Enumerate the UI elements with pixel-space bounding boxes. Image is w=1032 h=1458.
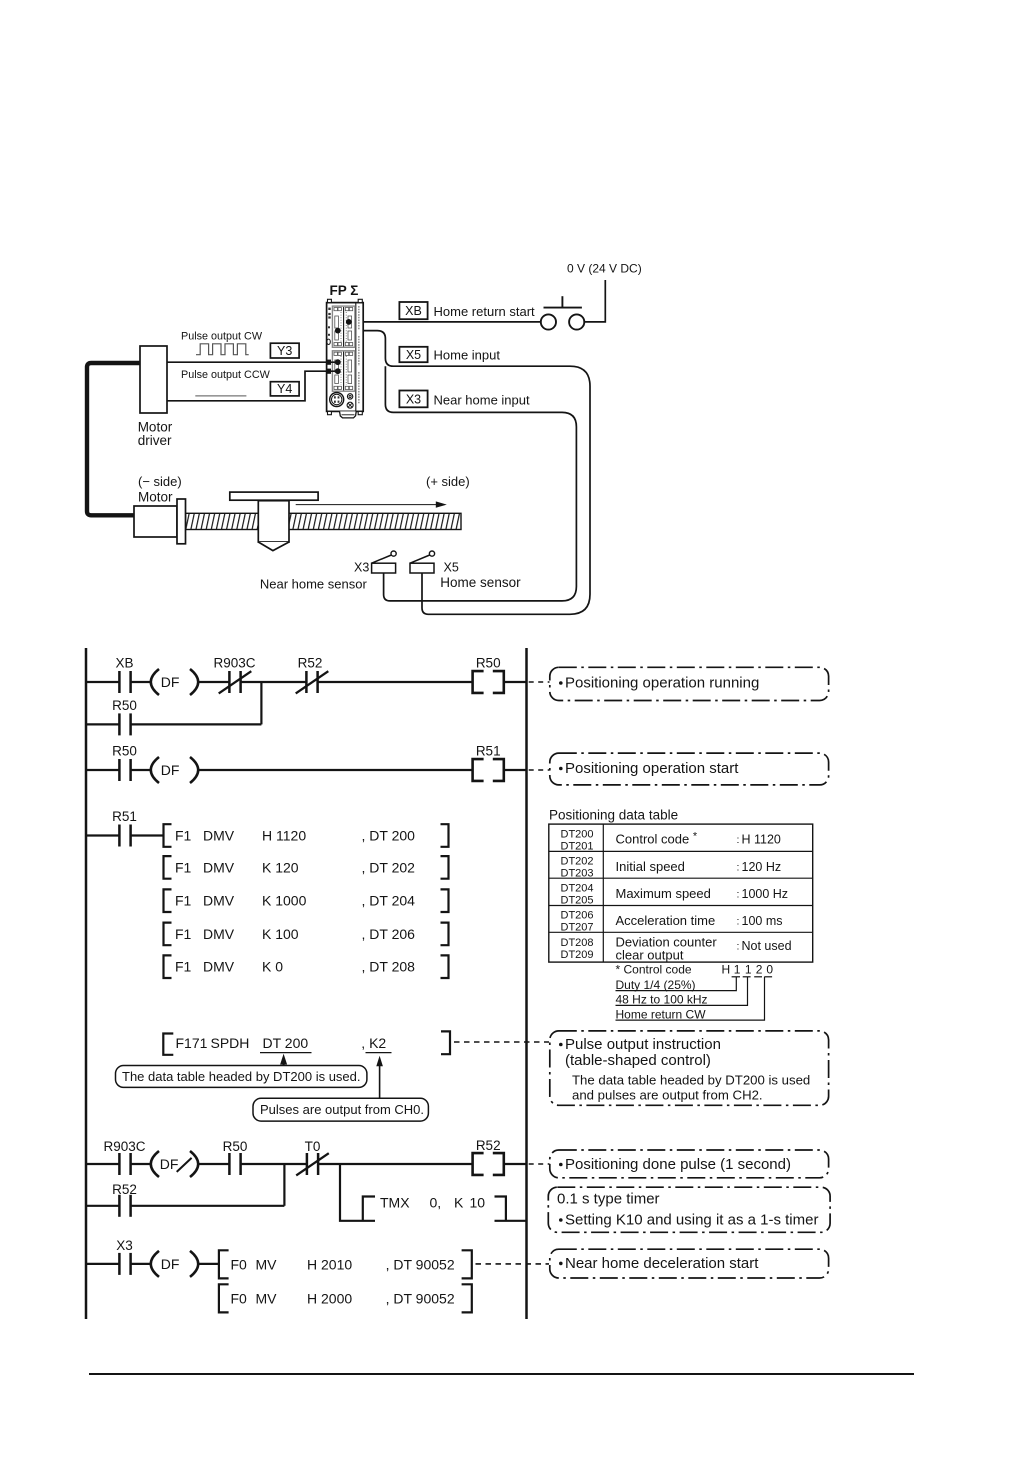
svg-text:X5: X5 xyxy=(444,561,459,575)
svg-text:R903C: R903C xyxy=(103,1139,145,1154)
wire Y4 CCW xyxy=(167,371,338,401)
svg-text:FP Σ: FP Σ xyxy=(330,283,359,298)
contact XB xyxy=(119,671,130,693)
contact R50 rung4 xyxy=(229,1153,240,1175)
comment box timer note xyxy=(548,1187,830,1232)
svg-text:XB: XB xyxy=(115,656,133,671)
rung 5 wires xyxy=(86,1263,219,1265)
thick wire driver to motor xyxy=(87,363,140,515)
connection dot Y4 xyxy=(335,368,341,374)
label Y3 box xyxy=(270,343,299,358)
svg-text:Pulses are output from CH0.: Pulses are output from CH0. xyxy=(260,1102,424,1117)
svg-text:T0: T0 xyxy=(305,1139,321,1154)
bottom rule xyxy=(89,1373,914,1375)
svg-text:Home sensor: Home sensor xyxy=(440,575,521,590)
svg-text:R52: R52 xyxy=(112,1182,137,1197)
data table xyxy=(549,824,813,962)
svg-text::: : xyxy=(737,916,740,928)
svg-text:, DT 204: , DT 204 xyxy=(362,893,416,909)
svg-text:and pulses are output from CH2: and pulses are output from CH2. xyxy=(572,1088,763,1103)
svg-text:clear output: clear output xyxy=(616,948,684,963)
DF falling pulse xyxy=(151,1151,198,1177)
svg-text:Home return CW: Home return CW xyxy=(616,1007,707,1021)
svg-text:R50: R50 xyxy=(112,744,137,759)
svg-text:DF: DF xyxy=(161,762,180,778)
svg-text:, DT 90052: , DT 90052 xyxy=(386,1257,455,1273)
svg-text:(− side): (− side) xyxy=(138,474,182,489)
connection dot XB xyxy=(346,319,352,325)
svg-text:The data table headed by DT200: The data table headed by DT200 is used xyxy=(572,1073,810,1088)
svg-text:H 1120: H 1120 xyxy=(262,828,306,844)
svg-text:F1: F1 xyxy=(175,893,192,909)
instruction F0 MV row2 xyxy=(219,1284,472,1312)
svg-text:DT203: DT203 xyxy=(561,867,594,879)
terminal mark Y3 xyxy=(327,360,331,365)
wire Y3 CW xyxy=(167,361,338,363)
instruction F1 DMV row1 xyxy=(164,824,449,847)
upper terminal block xyxy=(332,306,355,347)
wire 24V vertical xyxy=(585,280,606,322)
junction rung1 branch xyxy=(260,682,262,724)
svg-text::: : xyxy=(737,888,740,900)
branch R52 contact xyxy=(86,1205,284,1207)
svg-text::: : xyxy=(737,834,740,846)
svg-text:, DT 202: , DT 202 xyxy=(362,859,416,875)
svg-text:K 100: K 100 xyxy=(262,926,299,942)
comment box positioning operation start xyxy=(550,753,829,785)
svg-text:Not used: Not used xyxy=(742,939,792,953)
left rail xyxy=(85,648,88,1319)
dashed connector F171 xyxy=(454,1041,549,1043)
instruction F1 DMV row2 xyxy=(164,856,449,879)
terminal mark Y4 xyxy=(327,369,331,374)
arrow plus direction xyxy=(296,504,438,506)
motor flange xyxy=(177,499,186,544)
svg-text:DMV: DMV xyxy=(203,859,235,875)
junction R52 branch xyxy=(283,1164,285,1206)
svg-text:, K2: , K2 xyxy=(361,1035,386,1051)
svg-text:Initial speed: Initial speed xyxy=(616,859,685,874)
svg-text:K 120: K 120 xyxy=(262,859,299,875)
svg-text:Positioning data table: Positioning data table xyxy=(549,808,678,823)
svg-text:Pulse output CW: Pulse output CW xyxy=(181,331,263,343)
rung 3 contact R51 xyxy=(86,834,164,836)
svg-text:F1: F1 xyxy=(175,926,192,942)
svg-text:DMV: DMV xyxy=(203,959,235,975)
svg-text:DT 200: DT 200 xyxy=(263,1035,309,1051)
waveform CCW flat xyxy=(195,395,246,397)
comment box pulse output instruction xyxy=(550,1031,829,1105)
svg-text:, DT 208: , DT 208 xyxy=(362,959,416,975)
contact T0 NC xyxy=(307,1153,318,1175)
svg-text:X3: X3 xyxy=(116,1238,133,1253)
svg-text:Control code *: Control code * xyxy=(616,831,698,847)
svg-text:0: 0 xyxy=(766,963,773,977)
svg-text:Home return start: Home return start xyxy=(434,304,536,319)
callout data table DT200 xyxy=(116,1054,367,1088)
svg-text:DT208: DT208 xyxy=(561,937,594,949)
label box XB xyxy=(399,302,427,319)
svg-text:X3: X3 xyxy=(406,393,421,407)
svg-text:1: 1 xyxy=(734,963,741,977)
dashed connector rung4 xyxy=(529,1163,550,1165)
svg-text:10: 10 xyxy=(470,1195,486,1211)
svg-text:R51: R51 xyxy=(112,809,137,824)
contact R50 rung2 xyxy=(119,759,130,781)
svg-text:DT209: DT209 xyxy=(561,949,594,961)
svg-text:R52: R52 xyxy=(298,656,323,671)
dashed connector rung5 xyxy=(476,1263,550,1265)
svg-text:R50: R50 xyxy=(476,656,501,671)
svg-text:120 Hz: 120 Hz xyxy=(742,860,782,874)
dashed connector rung2 xyxy=(529,769,550,771)
svg-text:, DT 90052: , DT 90052 xyxy=(386,1291,455,1307)
instruction F1 DMV row5 xyxy=(164,955,449,978)
slider block xyxy=(258,501,289,542)
svg-text:F0: F0 xyxy=(231,1291,248,1307)
svg-text:R50: R50 xyxy=(112,698,137,713)
svg-text:0,: 0, xyxy=(430,1195,442,1211)
svg-text:1000 Hz: 1000 Hz xyxy=(742,887,789,901)
svg-text:K: K xyxy=(454,1195,464,1211)
svg-text:Positioning done pulse (1 seco: Positioning done pulse (1 second) xyxy=(565,1156,791,1173)
instruction F1 DMV row4 xyxy=(164,923,449,946)
lower terminal block xyxy=(332,351,355,391)
DF pulse rung2 xyxy=(151,757,198,783)
coil R50 xyxy=(473,671,504,693)
control code annotation xyxy=(616,963,774,1022)
svg-text:X3: X3 xyxy=(354,561,369,575)
svg-text:SPDH: SPDH xyxy=(211,1035,250,1051)
comment box near home deceleration xyxy=(550,1249,829,1278)
svg-text:Motor: Motor xyxy=(138,490,173,505)
DF pulse rung1 xyxy=(151,669,198,695)
svg-text:F1: F1 xyxy=(175,859,192,875)
svg-text:Near home input: Near home input xyxy=(434,393,530,408)
connection dot Y3 xyxy=(335,359,341,365)
svg-text:Y3: Y3 xyxy=(277,344,292,358)
svg-text:DMV: DMV xyxy=(203,828,235,844)
contact R903C NC xyxy=(229,671,240,693)
svg-text:(table-shaped control): (table-shaped control) xyxy=(565,1052,711,1069)
svg-text:48 Hz to 100 kHz: 48 Hz to 100 kHz xyxy=(616,993,708,1007)
svg-text:DT206: DT206 xyxy=(561,910,594,922)
svg-text:F171: F171 xyxy=(176,1035,208,1051)
svg-text:K 0: K 0 xyxy=(262,959,283,975)
instruction F1 DMV row3 xyxy=(164,889,449,912)
callout pulses CH0 xyxy=(253,1056,428,1121)
svg-text:R50: R50 xyxy=(223,1139,248,1154)
svg-text:XB: XB xyxy=(405,304,422,318)
svg-text:R51: R51 xyxy=(476,744,501,759)
contact X3 xyxy=(119,1253,130,1275)
svg-text:Pulse output instruction: Pulse output instruction xyxy=(565,1036,721,1053)
svg-text:MV: MV xyxy=(256,1291,278,1307)
wire XB to pushbutton xyxy=(349,321,541,323)
timer TMX instruction xyxy=(340,1164,527,1221)
rung 1 wires xyxy=(86,681,527,683)
near home sensor X3 xyxy=(372,551,397,573)
svg-text:DT201: DT201 xyxy=(561,840,594,852)
svg-text:DT205: DT205 xyxy=(561,895,594,907)
instruction F0 MV row1 xyxy=(219,1250,472,1278)
table plate xyxy=(230,492,318,500)
svg-text:Acceleration time: Acceleration time xyxy=(616,913,716,928)
coil R52 xyxy=(473,1153,504,1175)
svg-text:F1: F1 xyxy=(175,828,192,844)
lead screw hatched xyxy=(186,513,462,529)
svg-text:Setting K10 and using it as a: Setting K10 and using it as a 1-s timer xyxy=(565,1212,818,1229)
svg-text:DT202: DT202 xyxy=(561,855,594,867)
label box X3 xyxy=(399,391,427,408)
svg-text::: : xyxy=(737,941,740,953)
wire X3 input xyxy=(384,366,577,601)
contact R903C rung4 xyxy=(119,1153,130,1175)
svg-text:DF: DF xyxy=(160,1156,179,1172)
instruction F171 SPDH xyxy=(163,1031,450,1054)
svg-text:2: 2 xyxy=(756,963,763,977)
DIN connector xyxy=(330,393,344,407)
svg-text:R903C: R903C xyxy=(213,656,255,671)
DF pulse rung5 xyxy=(151,1251,198,1277)
connection dot X5 xyxy=(335,328,341,334)
right rail xyxy=(525,648,528,1319)
branch R50 contact xyxy=(86,723,261,725)
svg-text:DF: DF xyxy=(161,674,180,690)
svg-text:1: 1 xyxy=(745,963,752,977)
svg-text:driver: driver xyxy=(138,433,172,448)
comment box positioning done pulse xyxy=(550,1150,829,1178)
svg-text:100 ms: 100 ms xyxy=(742,914,783,928)
svg-text:DT200: DT200 xyxy=(561,828,594,840)
svg-text:* Control code: * Control code xyxy=(616,963,692,977)
svg-text:H: H xyxy=(722,963,731,977)
svg-text:0 V (24 V DC): 0 V (24 V DC) xyxy=(567,262,642,276)
home sensor X5 xyxy=(410,551,435,573)
svg-text:MV: MV xyxy=(256,1257,278,1273)
svg-text:Maximum speed: Maximum speed xyxy=(616,886,711,901)
svg-text:Pulse output CCW: Pulse output CCW xyxy=(181,369,271,381)
PLC unit FPSigma xyxy=(327,299,364,418)
svg-text:H 2000: H 2000 xyxy=(307,1291,352,1307)
svg-text:DMV: DMV xyxy=(203,893,235,909)
svg-text:R52: R52 xyxy=(476,1138,501,1153)
svg-text:, DT 206: , DT 206 xyxy=(362,926,416,942)
dashed connector rung1 xyxy=(529,681,550,683)
motor driver box xyxy=(140,346,167,413)
svg-text::: : xyxy=(737,861,740,873)
svg-text:The data table headed by DT200: The data table headed by DT200 is used. xyxy=(122,1069,361,1084)
svg-text:DMV: DMV xyxy=(203,926,235,942)
rung 4 wires xyxy=(86,1163,527,1165)
svg-text:H 1120: H 1120 xyxy=(742,833,781,847)
svg-text:K 1000: K 1000 xyxy=(262,893,307,909)
label box X5 xyxy=(399,347,427,362)
svg-text:F0: F0 xyxy=(231,1257,248,1273)
svg-text:, DT 200: , DT 200 xyxy=(362,828,416,844)
svg-text:(+ side): (+ side) xyxy=(426,474,470,489)
svg-text:DT204: DT204 xyxy=(561,883,594,895)
coil R51 xyxy=(473,759,504,781)
svg-text:X5: X5 xyxy=(406,348,421,362)
rung 2 wires xyxy=(86,769,527,771)
motor body xyxy=(134,506,177,537)
pushbutton home return start xyxy=(541,296,585,329)
svg-text:Home input: Home input xyxy=(434,348,501,363)
label Y4 box xyxy=(270,382,299,396)
svg-text:DT207: DT207 xyxy=(561,922,594,934)
svg-text:Positioning operation start: Positioning operation start xyxy=(565,760,739,777)
wire X5 input xyxy=(338,331,590,615)
svg-text:Duty 1/4 (25%): Duty 1/4 (25%) xyxy=(616,978,696,992)
svg-text:Near home sensor: Near home sensor xyxy=(260,577,368,592)
svg-text:TMX: TMX xyxy=(380,1195,410,1211)
contact R52 NC xyxy=(306,671,317,693)
waveform CW pulses xyxy=(196,344,249,355)
svg-text:0.1 s type timer: 0.1 s type timer xyxy=(557,1191,660,1208)
svg-text:F1: F1 xyxy=(175,959,192,975)
svg-text:DF: DF xyxy=(161,1256,180,1272)
comment box positioning operation running xyxy=(550,667,829,700)
svg-text:Positioning operation running: Positioning operation running xyxy=(565,675,759,692)
svg-text:H 2010: H 2010 xyxy=(307,1257,352,1273)
svg-text:Y4: Y4 xyxy=(277,382,292,396)
svg-text:Near home deceleration start: Near home deceleration start xyxy=(565,1255,759,1272)
